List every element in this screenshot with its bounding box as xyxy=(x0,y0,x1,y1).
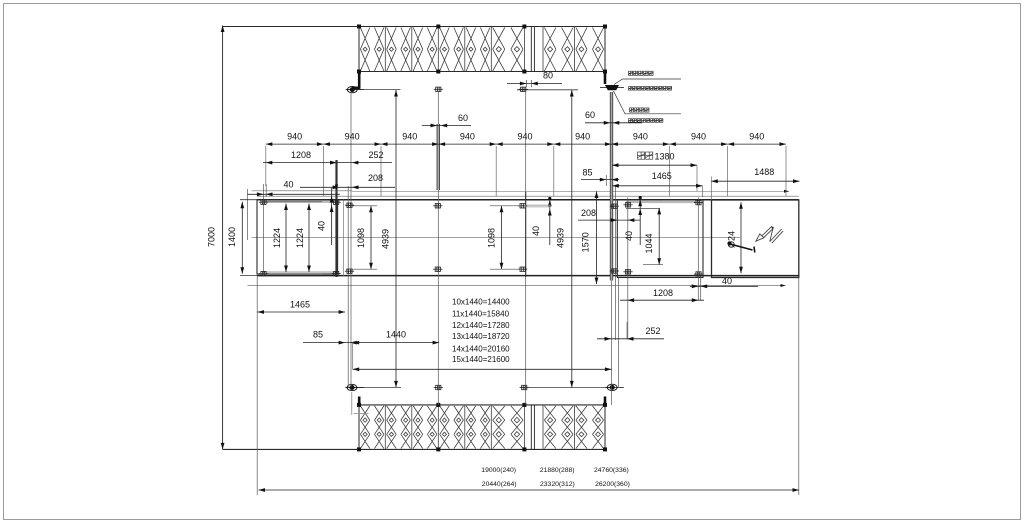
svg-text:1570: 1570 xyxy=(581,232,591,252)
vertical axis x628 xyxy=(627,198,629,340)
label upper line2 xyxy=(629,87,633,91)
label upper line1 xyxy=(629,71,633,75)
bottom band splice double line xyxy=(530,405,532,450)
svg-text:85: 85 xyxy=(313,330,323,340)
svg-text:85: 85 xyxy=(582,168,592,178)
bottom length table row2 xyxy=(482,481,630,488)
dim 1208 top xyxy=(263,150,345,165)
web bar left xyxy=(437,124,440,190)
svg-text:940: 940 xyxy=(287,132,302,142)
bottom band panel dividers xyxy=(385,405,574,450)
bottom band left support stub xyxy=(358,397,361,407)
main band centerline xyxy=(252,237,741,239)
dim 40 left box xyxy=(317,185,339,232)
svg-text:940: 940 xyxy=(575,132,590,142)
svg-text:40: 40 xyxy=(283,180,293,190)
upper bolt left xyxy=(346,86,364,92)
web bar right edge lines xyxy=(609,92,611,281)
upper extension line y191 xyxy=(352,190,789,192)
svg-text:60: 60 xyxy=(458,113,468,123)
length options table xyxy=(452,298,510,365)
dim row 940 xyxy=(266,132,786,147)
dim 208 right xyxy=(578,208,640,222)
dim 1098 mid xyxy=(487,206,524,269)
dim 40 middle box xyxy=(624,196,660,245)
lower bolt mid-right xyxy=(520,385,529,389)
dim 4939 right xyxy=(556,90,574,387)
top lattice band outline xyxy=(223,27,605,72)
left 40 extension lines xyxy=(263,184,265,276)
dim overall bottom xyxy=(259,488,800,492)
vertical axis x698 xyxy=(697,198,699,301)
dim 1570 xyxy=(581,192,599,285)
upper bolt axis line left xyxy=(346,89,401,91)
dim 4939 left xyxy=(381,90,398,387)
svg-text:1224: 1224 xyxy=(272,228,282,248)
svg-text:12x1440=17280: 12x1440=17280 xyxy=(452,321,510,330)
svg-text:1044: 1044 xyxy=(644,233,654,253)
dim 85 top xyxy=(581,168,619,187)
svg-text:11x1440=15840: 11x1440=15840 xyxy=(452,309,510,318)
web bar left edge lines xyxy=(436,124,438,190)
svg-text:1208: 1208 xyxy=(653,288,673,298)
dim 252 bottom-right xyxy=(597,322,664,341)
vertical axis x351 xyxy=(350,92,352,388)
left box dim ticks xyxy=(260,201,322,203)
svg-text:10x1440=14400: 10x1440=14400 xyxy=(452,298,510,307)
main band top edge thin xyxy=(257,195,799,197)
dim 1224 a xyxy=(272,204,288,273)
upper bolt axis line right xyxy=(517,89,578,91)
top band panel dividers xyxy=(385,27,574,72)
svg-text:940: 940 xyxy=(633,132,648,142)
extension x352 down xyxy=(352,343,354,370)
svg-text:940: 940 xyxy=(345,132,360,142)
middle panel box xyxy=(617,200,703,278)
svg-text:19000(240): 19000(240) xyxy=(481,467,516,474)
vertical axis x615 xyxy=(615,186,617,340)
web bar right xyxy=(610,92,613,281)
dim 1488 xyxy=(711,167,799,200)
north zigzag symbol xyxy=(756,226,783,243)
lower bolt left xyxy=(345,384,363,390)
svg-text:13x1440=18720: 13x1440=18720 xyxy=(452,332,510,341)
short vertical x247 xyxy=(247,189,249,240)
dim total bottom mid xyxy=(353,367,612,371)
upper bolt mid-right xyxy=(519,87,528,91)
svg-text:24760(336): 24760(336) xyxy=(594,467,629,474)
svg-text:15x1440=21600: 15x1440=21600 xyxy=(452,355,510,364)
vertical axis x700 xyxy=(700,276,702,300)
vertical axis x348 xyxy=(347,186,349,388)
svg-text:1208: 1208 xyxy=(291,150,311,160)
top band left support stub xyxy=(358,70,361,88)
svg-text:1098: 1098 xyxy=(487,228,497,248)
svg-text:40: 40 xyxy=(722,276,732,286)
dim 40 mid xyxy=(525,197,552,245)
dim 1098 left xyxy=(346,206,377,269)
dim 208 top xyxy=(300,173,395,189)
left panel bottom plate xyxy=(263,271,336,273)
splice bolts right xyxy=(610,204,619,208)
dim 252 top xyxy=(330,150,392,165)
dim 1208 bottom-right xyxy=(620,288,704,302)
svg-text:208: 208 xyxy=(581,208,596,218)
lower bolt axis line right xyxy=(521,387,612,389)
dim 1440 bottom xyxy=(350,330,439,345)
svg-text:1400: 1400 xyxy=(227,227,237,247)
dim 60 left xyxy=(422,113,471,127)
lower bolt axis line left xyxy=(346,387,401,389)
label lower line1 xyxy=(630,108,634,112)
right panel box xyxy=(712,200,799,278)
svg-text:1488: 1488 xyxy=(754,167,774,177)
svg-text:940: 940 xyxy=(749,132,764,142)
left box bolts xyxy=(259,200,268,204)
band bolts x438 xyxy=(433,204,442,208)
svg-text:1465: 1465 xyxy=(290,300,310,310)
vertical axis x611 xyxy=(611,281,613,406)
dim 1400 xyxy=(227,200,258,276)
support bearing symbol xyxy=(600,85,624,90)
svg-text:208: 208 xyxy=(368,173,383,183)
main band top chord xyxy=(257,199,799,201)
lower extension line y285 xyxy=(248,285,786,287)
dim 85 bottom xyxy=(303,330,357,345)
dim 1044 xyxy=(643,208,663,265)
vertical axis x524 xyxy=(525,92,527,192)
svg-text:7000: 7000 xyxy=(207,227,217,247)
leader upper xyxy=(614,79,681,85)
bottom band right support stub xyxy=(604,397,607,407)
svg-text:23320(312): 23320(312) xyxy=(540,481,575,488)
left box extension down xyxy=(256,276,258,495)
dim 40 top-left xyxy=(248,180,353,197)
lower bolt right xyxy=(606,384,624,390)
svg-text:1098: 1098 xyxy=(356,228,366,248)
svg-text:940: 940 xyxy=(460,132,475,142)
svg-text:252: 252 xyxy=(368,150,383,160)
svg-text:1224: 1224 xyxy=(295,228,305,248)
svg-text:1380: 1380 xyxy=(654,151,674,161)
vertical axis x618 xyxy=(618,278,620,388)
svg-text:20440(264): 20440(264) xyxy=(482,481,517,488)
svg-text:4939: 4939 xyxy=(381,229,391,249)
bottom band lattice hatch xyxy=(360,406,603,449)
left panel top plate xyxy=(263,201,336,203)
splice bolts left xyxy=(332,200,341,204)
svg-text:40: 40 xyxy=(531,226,541,236)
dim phi24 xyxy=(727,202,743,273)
940 extension lines xyxy=(266,146,786,196)
dim 60 right xyxy=(585,110,642,125)
svg-text:80: 80 xyxy=(543,71,553,81)
svg-text:26200(360): 26200(360) xyxy=(595,481,630,488)
lower bolt mid-left xyxy=(434,385,443,389)
middle panel top plate xyxy=(626,201,698,203)
svg-text:252: 252 xyxy=(645,326,660,336)
bottom length table row1 xyxy=(481,467,628,474)
dim 40 bottom-right xyxy=(690,276,758,288)
svg-text:14x1440=20160: 14x1440=20160 xyxy=(452,344,510,353)
svg-text:21880(288): 21880(288) xyxy=(540,467,575,474)
dim 1465 bottom xyxy=(258,300,346,314)
band bolts x524 xyxy=(518,204,527,208)
main band bottom chord xyxy=(257,275,799,277)
chord splice bar xyxy=(335,160,337,277)
bottom lattice band outline xyxy=(223,405,605,450)
right box extension down xyxy=(798,278,800,496)
svg-text:940: 940 xyxy=(517,132,532,142)
svg-text:940: 940 xyxy=(402,132,417,142)
vertical axis x438 xyxy=(437,92,439,124)
dim 1224 b xyxy=(295,204,311,273)
dim 80 top splice xyxy=(507,71,562,88)
left panel box xyxy=(257,200,338,274)
top band right support stub xyxy=(604,70,607,85)
top band lattice hatch xyxy=(360,28,603,72)
svg-text:40: 40 xyxy=(624,231,634,241)
dim danjie1380 xyxy=(612,151,697,191)
label lower line2 xyxy=(629,119,633,123)
top band node dots xyxy=(357,25,361,29)
svg-text:40: 40 xyxy=(317,221,327,231)
svg-text:1465: 1465 xyxy=(652,171,672,181)
vertical axis x343 xyxy=(343,200,345,277)
bottom band node dots xyxy=(357,403,361,407)
svg-text:940: 940 xyxy=(691,132,706,142)
top band splice double line xyxy=(530,27,532,72)
dim 1465 top xyxy=(612,171,702,197)
middle box bolts xyxy=(623,203,632,207)
svg-text:4939: 4939 xyxy=(556,228,566,248)
dim 7000 xyxy=(207,26,225,450)
svg-text:60: 60 xyxy=(585,110,595,120)
leader lower xyxy=(614,91,682,114)
short vertical x331 xyxy=(331,188,333,245)
upper bolt mid-left xyxy=(434,87,443,91)
phi24 leader symbol xyxy=(727,241,754,252)
